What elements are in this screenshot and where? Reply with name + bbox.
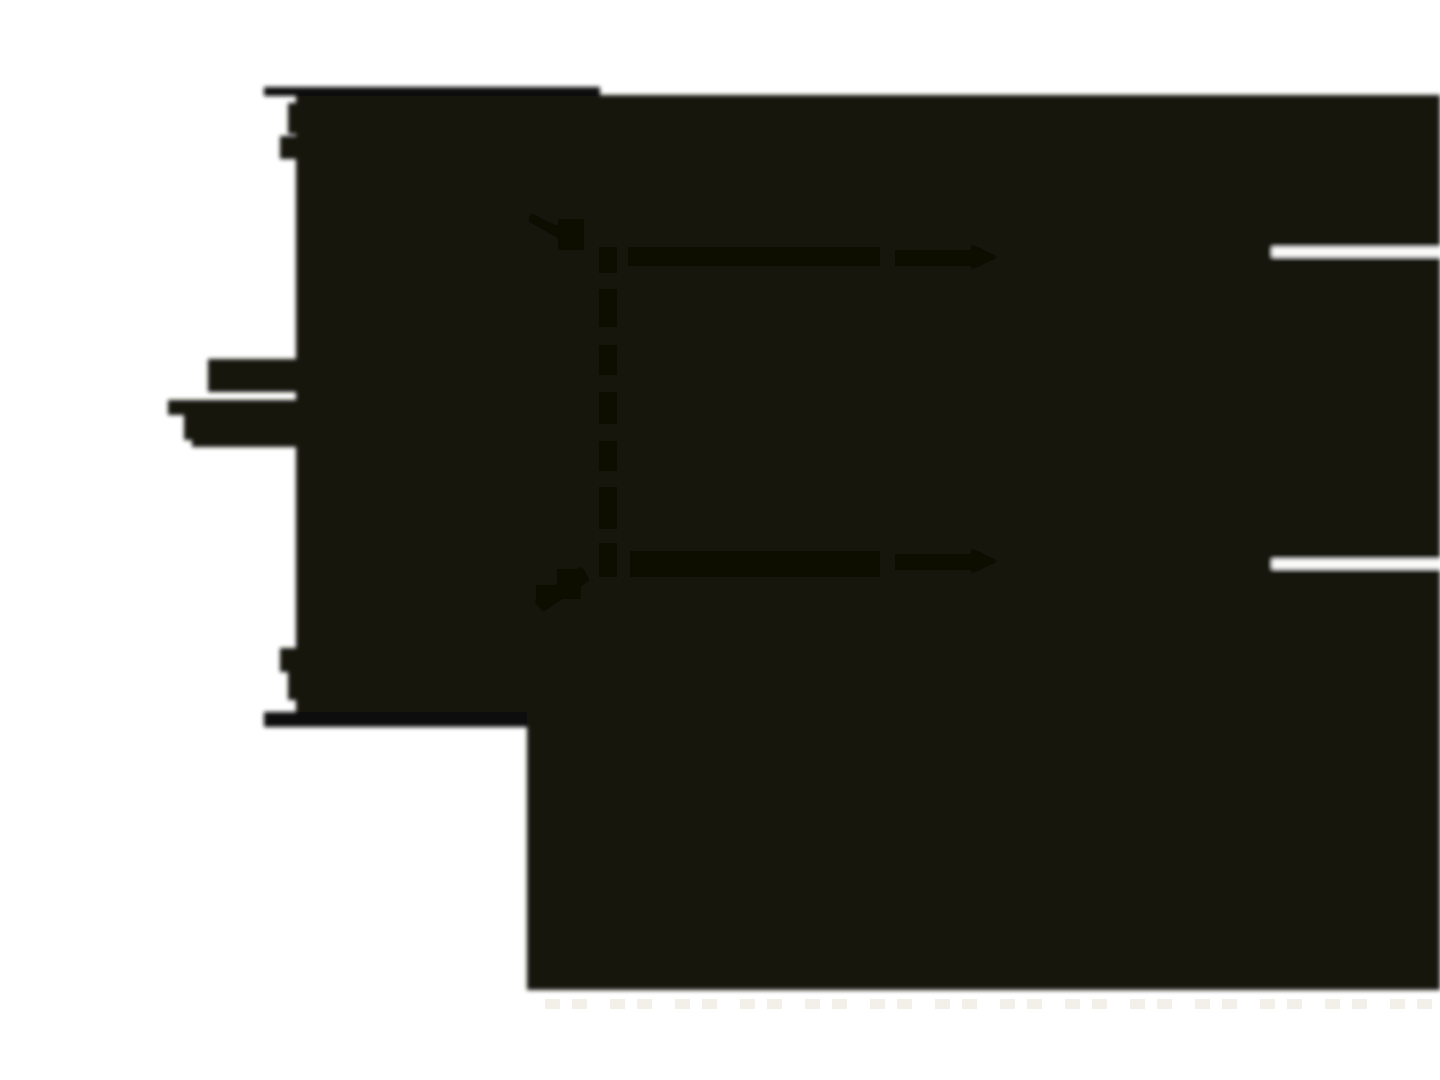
annotation arrow at pin 1 (sketch stroke, top) [528, 213, 584, 250]
wire W2 continuation (white segment to right edge) [1272, 559, 1440, 569]
node A (upper-left pin stub marks) [280, 103, 297, 159]
wire W1 continuation (white segment to right edge) [1272, 247, 1440, 257]
arrow head of wire W1 [895, 244, 998, 270]
wire W2 (lower output rail) [630, 551, 880, 577]
arrow head of wire W2 [895, 548, 998, 574]
schematic canvas panel (dark background region) [296, 95, 1440, 990]
component U1 boundary (vertical dashed line) [599, 247, 617, 577]
annotation arrow at pin 2 (sketch stroke, bottom) [534, 566, 590, 612]
wire W1 (upper output rail) [628, 247, 880, 266]
net label IN- (left margin text line 2) [168, 400, 297, 447]
net label GND (lower-left text) [280, 648, 297, 700]
ground rail bar (bottom edge of panel A) [264, 712, 527, 727]
node VCC label (top net label bar) [264, 87, 600, 96]
net label VIN (left margin text line 1) [208, 359, 297, 392]
ground reference ticks (faint dashed line below panel) [545, 999, 1432, 1009]
